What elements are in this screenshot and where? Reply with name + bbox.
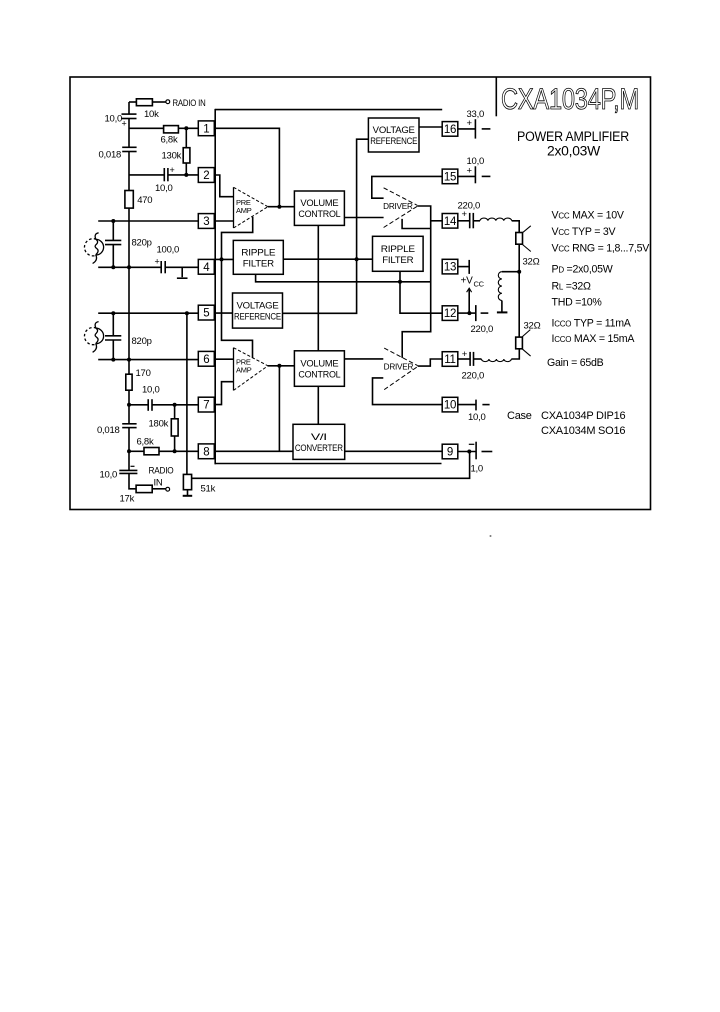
svg-text:32Ω: 32Ω bbox=[524, 321, 541, 332]
svg-text:6,8k: 6,8k bbox=[161, 135, 178, 146]
svg-text:820p: 820p bbox=[132, 336, 152, 347]
wire 10k to terminal bbox=[152, 101, 166, 103]
capacitor 10,0 (pin2) plates bbox=[163, 168, 165, 181]
svg-text:3: 3 bbox=[203, 216, 209, 228]
wire rail4 speaker to pin6 bbox=[98, 359, 198, 361]
wire rail to ground branch bbox=[502, 271, 519, 273]
svg-text:FILTER: FILTER bbox=[382, 255, 413, 266]
node bus/pin8 junction bbox=[127, 449, 131, 453]
svg-text:6,8k: 6,8k bbox=[137, 437, 154, 448]
wire pin9 to cap bbox=[458, 451, 476, 453]
svg-text:+: + bbox=[462, 209, 468, 220]
wire preamp1 output to volume control 1 bbox=[268, 206, 295, 208]
wire 100,0 to pin4 seg bbox=[165, 266, 198, 268]
svg-text:470: 470 bbox=[137, 195, 152, 206]
pin 13 box bbox=[442, 259, 458, 274]
svg-text:CC: CC bbox=[474, 280, 485, 289]
wire ripple filter left to ripple filter right bbox=[283, 258, 372, 260]
wire 180k bottom lead bbox=[174, 436, 176, 451]
svg-text:130k: 130k bbox=[162, 151, 182, 162]
wire driver1 power tap jog bbox=[402, 219, 431, 229]
capacitor 0,018 (bottom) plates bbox=[122, 423, 136, 425]
svg-text:PD =2x0,05W: PD =2x0,05W bbox=[552, 263, 613, 275]
svg-text:13: 13 bbox=[444, 262, 456, 274]
capacitor 1,0 (pin9) plate bbox=[475, 442, 477, 460]
capacitor 0,018 (top) plates bbox=[122, 146, 136, 148]
svg-text:0,018: 0,018 bbox=[97, 425, 120, 436]
capacitor 1,0 (pin9) stub bbox=[482, 451, 493, 453]
svg-text:RADIO: RADIO bbox=[149, 466, 174, 477]
svg-text:VOLTAGE: VOLTAGE bbox=[373, 125, 415, 136]
svg-text:10,0: 10,0 bbox=[155, 183, 173, 194]
wire volume bus to V/I converter bbox=[317, 386, 319, 424]
pin 6 box bbox=[198, 351, 214, 366]
svg-text:REFERENCE: REFERENCE bbox=[234, 312, 281, 323]
node bias/pin4 junction bbox=[220, 257, 224, 261]
capacitor 33,0 stub bbox=[482, 128, 491, 130]
IC block bottom edge bbox=[215, 463, 442, 465]
wire 51k to ground bbox=[187, 490, 189, 496]
volume control block (ch1) bbox=[294, 191, 344, 225]
svg-text:THD =10%: THD =10% bbox=[552, 296, 603, 308]
pin 12 box bbox=[442, 306, 458, 321]
wire cap to pin2 bbox=[168, 174, 198, 176]
svg-text:DRIVER: DRIVER bbox=[383, 202, 413, 211]
inductor (ch1) bbox=[480, 218, 512, 221]
wire input bus seg2 bbox=[128, 119, 130, 148]
svg-text:RL =32Ω: RL =32Ω bbox=[552, 280, 592, 292]
pin 7 box bbox=[198, 397, 214, 412]
node 180k top junction bbox=[173, 403, 177, 407]
svg-text:VOLUME: VOLUME bbox=[300, 359, 338, 370]
wire ripple filter bottom tap bus bbox=[256, 274, 431, 282]
svg-text:+: + bbox=[155, 257, 160, 267]
wire pin6 to preamp2 input bbox=[214, 358, 233, 360]
wire input bus upper bbox=[128, 102, 130, 114]
node pin12 junction bbox=[467, 311, 471, 315]
svg-text:100,0: 100,0 bbox=[157, 245, 180, 256]
resistor 180k bbox=[171, 419, 178, 436]
wire right ripple filter to pin12 bbox=[400, 271, 442, 313]
op-amp PRE AMP (ch1) bbox=[234, 187, 268, 228]
wire pin4 to ripple filter (left) bbox=[214, 258, 233, 260]
svg-text:CONTROL: CONTROL bbox=[298, 209, 340, 220]
resistor 470 bbox=[125, 191, 133, 209]
pin 14 box bbox=[442, 214, 458, 229]
wire radio-in top left bbox=[129, 101, 136, 103]
capacitor 1,0 polarity bar bbox=[469, 443, 475, 445]
pin 16 box bbox=[442, 122, 458, 137]
terminal circle RADIO IN (top) bbox=[166, 100, 170, 104]
wire pin14 branch bbox=[431, 220, 443, 222]
wire pin1 outer bbox=[129, 127, 164, 129]
svg-text:1,0: 1,0 bbox=[471, 463, 483, 474]
svg-text:RADIO IN: RADIO IN bbox=[173, 98, 206, 109]
capacitor 10,0 (pin10) stub bbox=[482, 404, 489, 406]
capacitor 820p (top) plates bbox=[105, 239, 121, 241]
svg-text:CONTROL: CONTROL bbox=[298, 370, 340, 381]
speaker (top) bbox=[84, 233, 103, 264]
resistor 32ohm (ch2) bbox=[516, 337, 523, 349]
svg-text:32Ω: 32Ω bbox=[523, 256, 540, 267]
capacitor 220,0 (pin14) plates bbox=[469, 213, 471, 228]
svg-text:+: + bbox=[122, 119, 127, 129]
capacitor 820p (bottom) plates bbox=[105, 335, 121, 337]
svg-text:+: + bbox=[467, 118, 473, 129]
svg-text:12: 12 bbox=[444, 308, 456, 320]
capacitor 820p (top) leads bbox=[112, 221, 114, 240]
svg-text:11: 11 bbox=[444, 354, 455, 366]
node rail4 cap junction bbox=[111, 358, 115, 362]
wire pin7 to preamp2 input bbox=[214, 382, 233, 405]
node rail3 cap junction bbox=[111, 311, 115, 315]
wire pin15 to cap 10,0 bbox=[458, 175, 476, 177]
wire preamp2 output to volume control 2 bbox=[268, 365, 295, 367]
svg-text:51k: 51k bbox=[201, 484, 216, 495]
wire pin10 to driver2 input bbox=[373, 378, 443, 405]
capacitor 100,0 plates bbox=[160, 261, 162, 273]
resistor 51k bbox=[183, 474, 191, 489]
IC block top edge bbox=[215, 109, 442, 111]
svg-text:10,0: 10,0 bbox=[467, 156, 485, 167]
svg-text:VCC MAX = 10V: VCC MAX = 10V bbox=[552, 210, 625, 222]
svg-text:ICCO MAX = 15mA: ICCO MAX = 15mA bbox=[552, 333, 636, 345]
voltage reference block (top) bbox=[368, 118, 419, 152]
capacitor 10,0 (bottom) plates bbox=[119, 469, 137, 471]
border frame bbox=[70, 77, 651, 510]
wire pin11 to cap bbox=[458, 358, 470, 360]
driver amp (ch1) bbox=[383, 188, 417, 228]
wire input bus seg3 bbox=[128, 152, 130, 191]
svg-text:VOLTAGE: VOLTAGE bbox=[237, 301, 279, 312]
Vcc arrow bbox=[467, 288, 472, 292]
svg-text:15: 15 bbox=[444, 171, 456, 183]
wire bus seg5 bbox=[128, 428, 130, 471]
svg-text:+: + bbox=[170, 165, 175, 175]
wire 51k from pin5 rail bbox=[186, 313, 188, 474]
stray mark bbox=[490, 535, 492, 537]
capacitor 220,0 (pin11) plates bbox=[469, 352, 471, 366]
wire volume control 1 to driver 1 bbox=[344, 217, 383, 219]
svg-text:ICCO TYP = 11mA: ICCO TYP = 11mA bbox=[552, 318, 632, 330]
pin 8 box bbox=[198, 444, 214, 459]
wire pin16 to cap 33,0 bbox=[458, 128, 476, 130]
svg-text:RIPPLE: RIPPLE bbox=[241, 247, 275, 258]
svg-text:CXA1034M SO16: CXA1034M SO16 bbox=[541, 425, 625, 437]
svg-text:CONVERTER: CONVERTER bbox=[295, 443, 343, 454]
capacitor 10,0 (bottom) polarity tick bbox=[131, 465, 135, 467]
wire 6,8k to pin1 bbox=[178, 127, 198, 129]
ripple filter block (left) bbox=[233, 240, 283, 274]
capacitor 820p (bottom) leads bbox=[112, 313, 114, 336]
node rail2 cap junction bbox=[111, 265, 115, 269]
wire 51k tap to pin9 node bbox=[192, 452, 470, 479]
wire pin8 outer left bbox=[129, 450, 144, 452]
svg-text:IN: IN bbox=[154, 477, 163, 488]
svg-text:AMP: AMP bbox=[236, 365, 252, 374]
svg-text:170: 170 bbox=[136, 368, 151, 379]
node preamp1 output junction bbox=[277, 205, 281, 209]
wire input bus seg4 bbox=[128, 208, 130, 424]
wire pin2 outer left bbox=[129, 174, 164, 176]
svg-text:5: 5 bbox=[203, 308, 209, 320]
wire 180k top lead bbox=[174, 405, 176, 419]
wire pin5 to voltage reference (left) bbox=[214, 312, 232, 314]
wire volume control bus bbox=[317, 225, 319, 350]
svg-text:1: 1 bbox=[203, 123, 209, 135]
svg-text:RIPPLE: RIPPLE bbox=[381, 244, 415, 255]
svg-text:V/I: V/I bbox=[311, 432, 327, 443]
node rail1 cap junction bbox=[111, 219, 115, 223]
svg-text:2: 2 bbox=[203, 170, 209, 182]
resistor 6,8k (top) bbox=[164, 126, 179, 133]
resistor 130k bbox=[183, 148, 190, 163]
pin 2 box bbox=[198, 168, 214, 183]
V/I converter block bbox=[293, 424, 345, 459]
wire rail1 speaker to pin3 bbox=[98, 220, 198, 222]
node rail4 bus junction bbox=[127, 358, 131, 362]
svg-text:10,0: 10,0 bbox=[468, 412, 486, 423]
volume control block (ch2) bbox=[294, 351, 344, 387]
ripple filter block (right) bbox=[373, 236, 424, 271]
svg-text:10,0: 10,0 bbox=[142, 384, 160, 395]
capacitor 220,0 (pin12) plates bbox=[469, 312, 475, 314]
node 130k bottom junction bbox=[184, 173, 188, 177]
svg-text:10k: 10k bbox=[144, 109, 159, 120]
pin 3 box bbox=[198, 214, 214, 229]
wire voltage reference left to top reference bbox=[283, 139, 369, 313]
capacitor 10,0 (pin15) stub bbox=[482, 175, 491, 177]
svg-text:17k: 17k bbox=[120, 494, 135, 505]
wire rail2 speaker to cap bbox=[98, 266, 161, 268]
capacitor 10,0 (pin7) plates bbox=[147, 399, 149, 411]
wire load rail mid bbox=[518, 244, 520, 337]
pin 4 box bbox=[198, 259, 214, 274]
resistor 170 bbox=[126, 374, 132, 390]
svg-text:VCC RNG = 1,8...7,5V: VCC RNG = 1,8...7,5V bbox=[552, 242, 651, 254]
inductor (ch2) bbox=[482, 359, 512, 362]
svg-text:14: 14 bbox=[444, 216, 457, 228]
node ripple tap junction bbox=[398, 280, 402, 284]
capacitor 10,0 (pin15) plate bbox=[474, 166, 476, 183]
svg-text:DRIVER: DRIVER bbox=[384, 362, 414, 371]
svg-text:VCC TYP = 3V: VCC TYP = 3V bbox=[552, 226, 617, 238]
pin 1 box bbox=[198, 121, 214, 136]
pin 10 box bbox=[442, 397, 458, 412]
wire bus to 17k bbox=[129, 473, 136, 488]
node rail2 bus junction bbox=[127, 265, 131, 269]
speaker coil to ground bbox=[498, 272, 502, 301]
svg-text:REFERENCE: REFERENCE bbox=[370, 136, 417, 147]
resistor 10k bbox=[136, 99, 152, 106]
wire 130k bottom lead bbox=[185, 163, 187, 175]
wire pin7 outer left bbox=[129, 404, 148, 406]
wire preamp2 feedback to pin8 line bbox=[278, 366, 280, 452]
svg-text:AMP: AMP bbox=[236, 206, 252, 215]
svg-text:16: 16 bbox=[444, 124, 456, 136]
wire driver2 output to pin11 bbox=[418, 359, 443, 366]
wire driver1 output to pin14 and Vcc rail bbox=[402, 206, 431, 358]
svg-text:+V: +V bbox=[461, 276, 474, 287]
op-amp PRE AMP (ch2) bbox=[234, 348, 268, 391]
wire cap to inductor (ch2) bbox=[474, 358, 482, 360]
svg-text:FILTER: FILTER bbox=[243, 258, 274, 269]
svg-text:Gain = 65dB: Gain = 65dB bbox=[547, 357, 604, 369]
wire pin3 to preamp1 input bbox=[214, 220, 234, 222]
svg-text:VOLUME: VOLUME bbox=[300, 198, 338, 209]
pin 15 box bbox=[442, 169, 458, 184]
wire cap to pin7 bbox=[152, 404, 198, 406]
wire 17k to terminal bbox=[152, 488, 166, 490]
wire V/I converter to pin9 bbox=[345, 450, 443, 452]
svg-text:0,018: 0,018 bbox=[99, 150, 122, 161]
pointer 32ohm ch1 lower bbox=[523, 245, 531, 252]
pointer 32ohm ch1 upper bbox=[523, 226, 531, 233]
svg-text:Case: Case bbox=[507, 410, 532, 422]
wire 130k top lead bbox=[185, 128, 187, 147]
wire preamp bias line to pin4 node bbox=[222, 217, 253, 358]
wire pin15 to driver1 input bbox=[372, 176, 442, 198]
node ripple line junction bbox=[355, 257, 359, 261]
capacitor 10,0 (pin10) plate bbox=[475, 400, 477, 411]
pin 5 box bbox=[198, 305, 214, 320]
resistor 17k bbox=[136, 485, 152, 492]
wire volume control 2 to driver 2 bbox=[344, 358, 383, 360]
capacitor 10,0 input (top) plates bbox=[122, 113, 137, 115]
svg-text:220,0: 220,0 bbox=[462, 371, 485, 382]
svg-text:33,0: 33,0 bbox=[467, 109, 485, 120]
wire inductor to load rail (ch1) bbox=[512, 221, 520, 233]
node 130k top junction bbox=[184, 126, 188, 130]
node 180k bottom junction bbox=[173, 449, 177, 453]
wire pin8 to V/I converter bbox=[214, 450, 293, 452]
wire top voltage reference to pin16 bbox=[419, 126, 442, 128]
svg-text:+: + bbox=[467, 166, 473, 177]
svg-text:10: 10 bbox=[444, 400, 456, 412]
resistor 6,8k (bottom) bbox=[144, 448, 159, 455]
svg-text:2x0,03W: 2x0,03W bbox=[547, 144, 601, 159]
svg-text:CXA1034P DIP16: CXA1034P DIP16 bbox=[541, 410, 625, 422]
voltage reference block (left) bbox=[233, 293, 283, 328]
driver amp (ch2) bbox=[384, 348, 418, 390]
wire pin1 feedback to preamp1 output bbox=[214, 128, 279, 206]
svg-text:10,0: 10,0 bbox=[105, 114, 123, 125]
node rail3 51k junction bbox=[185, 311, 189, 315]
terminal circle RADIO IN (bottom) bbox=[166, 487, 170, 491]
svg-text:820p: 820p bbox=[132, 237, 152, 248]
svg-text:9: 9 bbox=[447, 447, 453, 459]
wire pin2 to preamp1 input bbox=[214, 175, 233, 197]
svg-text:8: 8 bbox=[203, 446, 209, 458]
svg-text:180k: 180k bbox=[149, 419, 169, 430]
node load rail junction bbox=[517, 270, 521, 274]
wire 6,8k to pin8 bbox=[159, 450, 198, 452]
svg-text:4: 4 bbox=[203, 262, 210, 274]
ground (51k) bbox=[183, 495, 193, 497]
pointer 32ohm ch2 lower bbox=[522, 349, 530, 356]
wire pin12 to node bbox=[458, 312, 470, 314]
resistor 32ohm (ch1) bbox=[516, 233, 523, 245]
speaker (bottom) bbox=[84, 322, 103, 353]
pin 9 box bbox=[442, 444, 458, 459]
wire pin10 to cap bbox=[458, 404, 476, 406]
svg-text:7: 7 bbox=[203, 400, 209, 412]
capacitor to Vcc node (pin13) bbox=[458, 266, 469, 268]
node pin9 junction bbox=[467, 450, 471, 454]
svg-text:220,0: 220,0 bbox=[471, 324, 494, 335]
capacitor 33,0 plate bbox=[474, 119, 476, 138]
svg-text:6: 6 bbox=[203, 354, 209, 366]
wire cap to inductor (ch1) bbox=[473, 220, 480, 222]
ground (load) bbox=[497, 311, 508, 313]
wire coil to ground bar bbox=[501, 301, 503, 312]
svg-text:10,0: 10,0 bbox=[100, 470, 118, 481]
svg-text:CXA1034P,M: CXA1034P,M bbox=[501, 83, 639, 116]
pointer 32ohm ch2 upper bbox=[522, 330, 530, 337]
wire pin14 to cap bbox=[458, 220, 470, 222]
title divider line bbox=[495, 78, 497, 117]
ground stub at 100,0 bbox=[181, 267, 183, 277]
node preamp2 output junction bbox=[277, 364, 281, 368]
node bus/pin7 junction bbox=[127, 403, 131, 407]
IC block left edge bbox=[214, 109, 216, 464]
wire load rail to ch2 inductor bbox=[511, 349, 519, 359]
pin 11 box bbox=[442, 352, 458, 367]
wire rail3 speaker to pin5 bbox=[98, 312, 198, 314]
